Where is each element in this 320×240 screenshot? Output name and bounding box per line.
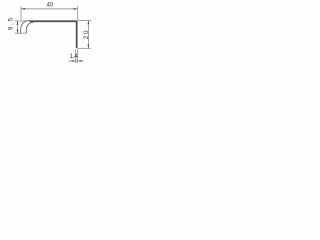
svg-text:40: 40 [47, 1, 54, 8]
svg-text:9,5: 9,5 [8, 16, 15, 30]
svg-text:1,4: 1,4 [70, 53, 79, 60]
svg-text:20: 20 [83, 29, 90, 40]
